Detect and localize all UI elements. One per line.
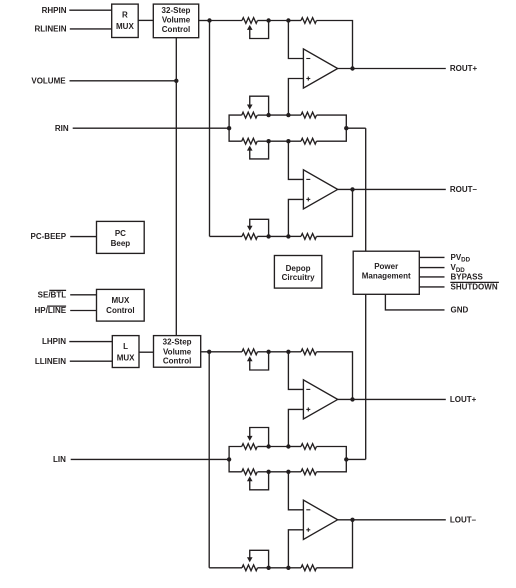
svg-text:LIN: LIN xyxy=(53,455,66,464)
node ROUT+ xyxy=(450,64,478,73)
block MUX Control xyxy=(97,289,145,321)
wire xyxy=(229,128,242,141)
wire xyxy=(258,351,269,353)
wire xyxy=(317,128,347,141)
wire xyxy=(288,140,301,142)
wire xyxy=(139,351,154,353)
svg-text:Control: Control xyxy=(162,25,190,34)
wire xyxy=(288,352,303,390)
op-amp L1 xyxy=(303,380,337,419)
svg-text:PVDD: PVDD xyxy=(451,253,471,264)
node non-inverting tap 2 xyxy=(286,566,290,570)
block 32-Step Volume Control (right) xyxy=(153,4,198,38)
wire xyxy=(70,310,96,312)
node ROUT- output xyxy=(350,187,354,191)
wire xyxy=(73,127,229,129)
wire xyxy=(70,236,96,238)
svg-text:Beep: Beep xyxy=(111,239,131,248)
wire xyxy=(210,235,243,237)
svg-text:RHPIN: RHPIN xyxy=(42,6,67,15)
wire xyxy=(69,341,112,343)
svg-text:Volume: Volume xyxy=(162,16,191,25)
block PC Beep xyxy=(97,221,145,253)
resistor L-mid-top xyxy=(301,444,316,450)
svg-text:Depop: Depop xyxy=(286,264,311,273)
node wiper junction xyxy=(266,566,270,570)
node volume output R xyxy=(207,18,211,22)
svg-text:MUX: MUX xyxy=(116,22,134,31)
node PC-BEEP xyxy=(31,232,67,241)
wire xyxy=(288,141,303,179)
wire xyxy=(209,351,242,353)
svg-text:Control: Control xyxy=(163,356,191,365)
svg-text:MUX: MUX xyxy=(112,296,130,305)
wire xyxy=(288,20,301,22)
svg-text:GND: GND xyxy=(451,306,469,315)
wire xyxy=(317,21,353,69)
svg-text:PC: PC xyxy=(115,229,126,238)
node volume output L xyxy=(207,350,211,354)
wire xyxy=(346,458,365,460)
node inverting tap 2 xyxy=(286,139,290,143)
svg-text:R: R xyxy=(122,11,128,20)
node RIN junction xyxy=(227,126,231,130)
wire xyxy=(346,127,365,129)
node VOLUME xyxy=(31,76,66,85)
wire xyxy=(288,530,303,568)
node PVDD xyxy=(451,253,471,264)
wire xyxy=(419,286,444,288)
wire xyxy=(70,294,96,296)
node inverting tap xyxy=(286,18,290,22)
block Power Management xyxy=(353,251,419,294)
wire xyxy=(175,38,177,336)
wire xyxy=(269,567,289,569)
resistor R-mid-top xyxy=(301,112,316,118)
resistor L-input-1 xyxy=(301,349,316,355)
variable resistor L-feedback-1 xyxy=(242,349,269,370)
op-amp R1 xyxy=(303,49,337,88)
wire xyxy=(317,115,347,128)
wire xyxy=(365,128,367,251)
wire xyxy=(229,115,242,128)
wire xyxy=(288,472,303,510)
node SHUTDOWN xyxy=(450,282,499,291)
wire xyxy=(317,520,353,568)
wire xyxy=(269,471,289,473)
op-amp L2 xyxy=(303,500,337,539)
node RLINEIN xyxy=(35,25,67,34)
wire xyxy=(317,447,347,460)
svg-text:LOUT+: LOUT+ xyxy=(450,395,477,404)
svg-text:LOUT–: LOUT– xyxy=(450,515,477,524)
node wiper junction xyxy=(266,113,270,117)
wire xyxy=(317,352,353,400)
wire xyxy=(258,20,269,22)
wire xyxy=(209,567,242,569)
wire xyxy=(258,114,269,116)
mux R MUX xyxy=(112,4,139,37)
svg-text:RLINEIN: RLINEIN xyxy=(35,25,67,34)
variable resistor L-in-top xyxy=(242,428,269,450)
svg-text:Circuitry: Circuitry xyxy=(282,273,315,282)
wire xyxy=(70,80,177,82)
wire xyxy=(229,447,242,460)
svg-text:Volume: Volume xyxy=(163,347,192,356)
wire xyxy=(69,9,111,11)
wire xyxy=(419,276,444,278)
node non-inverting tap xyxy=(286,113,290,117)
wire xyxy=(338,188,446,190)
wire xyxy=(288,199,303,236)
node LOUT+ output xyxy=(350,397,354,401)
wire xyxy=(317,189,353,236)
variable resistor R-in-top xyxy=(242,96,269,118)
node ROUT+ output xyxy=(350,66,354,70)
resistor R-input-2 xyxy=(301,234,316,240)
wire xyxy=(269,235,289,237)
block 32-Step Volume Control (left) xyxy=(154,336,201,368)
resistor R-mid-bottom xyxy=(301,138,316,144)
resistor R-input-1 xyxy=(301,18,316,24)
wire xyxy=(385,294,444,310)
svg-text:BYPASS: BYPASS xyxy=(451,273,484,282)
wire xyxy=(269,446,289,448)
node HP/LINE xyxy=(35,306,67,315)
wire xyxy=(338,519,446,521)
node LOUT- xyxy=(450,515,477,524)
node RHPIN xyxy=(42,6,67,15)
svg-text:LLINEIN: LLINEIN xyxy=(35,357,66,366)
wire xyxy=(288,409,303,446)
node SE/BTL xyxy=(38,290,67,299)
node BYPASS xyxy=(451,273,484,282)
node wiper junction xyxy=(266,234,270,238)
wire xyxy=(258,446,269,448)
wire xyxy=(288,21,303,59)
node mid rejoin xyxy=(344,457,348,461)
wire xyxy=(269,140,289,142)
node non-inverting tap xyxy=(286,444,290,448)
mux L MUX xyxy=(112,336,139,368)
wire xyxy=(258,140,269,142)
node RIN xyxy=(55,124,69,133)
wire xyxy=(269,20,289,22)
svg-text:VOLUME: VOLUME xyxy=(31,76,66,85)
node GND xyxy=(451,306,469,315)
svg-text:LHPIN: LHPIN xyxy=(42,337,66,346)
node mid rejoin xyxy=(344,126,348,130)
variable resistor L-in-bottom xyxy=(242,469,269,490)
svg-text:RIN: RIN xyxy=(55,124,69,133)
svg-text:PC-BEEP: PC-BEEP xyxy=(31,232,67,241)
wire xyxy=(288,351,301,353)
wire xyxy=(365,294,367,459)
wire xyxy=(317,459,347,471)
node inverting tap xyxy=(286,350,290,354)
wire xyxy=(70,360,113,362)
node inverting tap 2 xyxy=(286,470,290,474)
node wiper junction xyxy=(266,350,270,354)
wire xyxy=(288,471,301,473)
wire xyxy=(269,114,289,116)
node volume junction xyxy=(174,79,178,83)
svg-text:Control: Control xyxy=(106,306,134,315)
wire xyxy=(138,19,153,21)
node wiper junction xyxy=(266,444,270,448)
wire xyxy=(288,235,301,237)
node wiper junction xyxy=(266,470,270,474)
node ROUT- xyxy=(450,185,478,194)
wire xyxy=(71,458,229,460)
variable resistor R-feedback-1 xyxy=(242,18,269,39)
variable resistor L-feedback-2 xyxy=(242,550,269,570)
resistor L-mid-bottom xyxy=(301,469,316,475)
node VDD xyxy=(451,263,466,274)
wire xyxy=(338,68,446,70)
wire xyxy=(208,352,210,568)
svg-text:ROUT–: ROUT– xyxy=(450,185,478,194)
node LHPIN xyxy=(42,337,66,346)
node LOUT- output xyxy=(350,518,354,522)
wire xyxy=(258,235,269,237)
node LOUT+ xyxy=(450,395,477,404)
node LLINEIN xyxy=(35,357,66,366)
wire xyxy=(288,446,301,448)
svg-text:HP/LINE: HP/LINE xyxy=(35,306,67,315)
wire xyxy=(269,351,289,353)
wire xyxy=(210,20,243,22)
svg-text:32-Step: 32-Step xyxy=(163,338,192,347)
svg-text:ROUT+: ROUT+ xyxy=(450,64,478,73)
wire xyxy=(288,567,301,569)
wire xyxy=(209,21,211,237)
node LIN junction xyxy=(227,457,231,461)
svg-text:SE/BTL: SE/BTL xyxy=(38,290,67,299)
svg-text:32-Step: 32-Step xyxy=(162,6,191,15)
svg-text:L: L xyxy=(123,342,128,351)
wire xyxy=(338,398,446,400)
block Depop Circuitry xyxy=(274,256,321,289)
svg-text:Power: Power xyxy=(374,262,398,271)
node non-inverting tap 2 xyxy=(286,234,290,238)
wire xyxy=(258,471,269,473)
wire xyxy=(419,256,444,258)
wire xyxy=(199,20,210,22)
wire xyxy=(201,351,210,353)
variable resistor R-feedback-2 xyxy=(242,219,269,239)
resistor L-input-2 xyxy=(301,565,316,571)
variable resistor R-in-bottom xyxy=(242,138,269,159)
wire xyxy=(229,459,242,471)
node wiper junction xyxy=(266,139,270,143)
svg-text:Management: Management xyxy=(362,272,411,281)
svg-text:MUX: MUX xyxy=(117,353,135,362)
wire xyxy=(288,79,303,116)
wire xyxy=(419,267,444,269)
node wiper junction xyxy=(266,18,270,22)
svg-text:SHUTDOWN: SHUTDOWN xyxy=(451,283,498,292)
op-amp R2 xyxy=(303,170,337,209)
node LIN xyxy=(53,455,66,464)
wire xyxy=(70,28,112,30)
wire xyxy=(288,114,301,116)
wire xyxy=(258,567,269,569)
